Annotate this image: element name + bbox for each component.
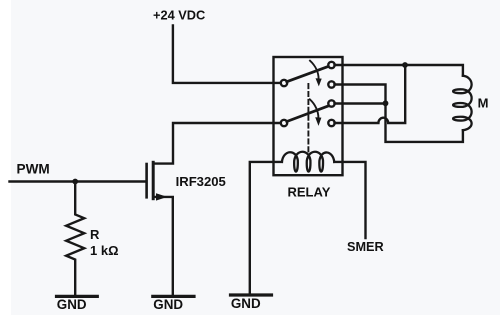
svg-text:1 kΩ: 1 kΩ xyxy=(90,243,119,258)
relay SW2 upper throw terminal xyxy=(328,100,334,106)
node junction dot wires 2-3 xyxy=(383,100,389,106)
relay SW1 common terminal xyxy=(281,80,287,86)
relay SW1 arrow xyxy=(310,61,319,79)
relay SW2 common terminal xyxy=(281,120,287,126)
node junction dot PWM/R xyxy=(72,179,78,185)
relay SW1 upper throw terminal xyxy=(328,62,334,68)
wire drain to relay SW2 common xyxy=(153,123,281,164)
svg-text:M: M xyxy=(478,96,489,111)
relay SW1 blade xyxy=(287,66,329,82)
relay SW2 lower throw terminal xyxy=(328,120,334,126)
resistor R1 1k zigzag xyxy=(66,182,84,296)
ground GND1 under resistor xyxy=(57,295,98,298)
svg-text:GND: GND xyxy=(57,297,87,312)
svg-text:+24 VDC: +24 VDC xyxy=(153,8,205,23)
wire SW1-NO to motor top xyxy=(335,65,463,76)
relay U1 box xyxy=(274,57,343,175)
svg-text:SMER: SMER xyxy=(347,240,384,254)
svg-text:RELAY: RELAY xyxy=(288,185,331,200)
wire relay coil left to ground xyxy=(250,162,282,294)
relay linkage dashed line xyxy=(307,84,309,152)
transistor Q1 source arrow xyxy=(156,193,167,200)
wire PWM to gate xyxy=(10,180,146,182)
relay SW2 arrow xyxy=(310,99,319,118)
relay SW2 blade xyxy=(287,106,329,122)
node junction dot on motor top wire xyxy=(402,62,408,68)
wire relay coil right to SMER xyxy=(334,162,365,238)
transistor Q1 IRF3205 gate bar xyxy=(145,164,148,197)
svg-text:IRF3205: IRF3205 xyxy=(176,174,226,189)
svg-text:GND: GND xyxy=(231,296,261,311)
ground GND2 under source xyxy=(153,295,194,298)
wire SW2-NC to junction with hop xyxy=(335,65,406,123)
ground GND3 under relay coil xyxy=(231,293,272,296)
wire +24VDC to relay SW1 common xyxy=(173,26,281,83)
motor M1 coil xyxy=(453,76,472,131)
relay coil xyxy=(282,152,334,172)
wire SW2-NO to motor bottom xyxy=(335,104,463,142)
svg-text:GND: GND xyxy=(153,297,183,312)
svg-text:R: R xyxy=(90,227,100,242)
svg-text:PWM: PWM xyxy=(17,161,50,176)
wire SW1-NC down xyxy=(335,85,386,102)
transistor Q1 channel bar xyxy=(152,162,155,198)
wire source to ground xyxy=(153,197,173,295)
relay SW1 lower throw terminal xyxy=(328,81,334,87)
